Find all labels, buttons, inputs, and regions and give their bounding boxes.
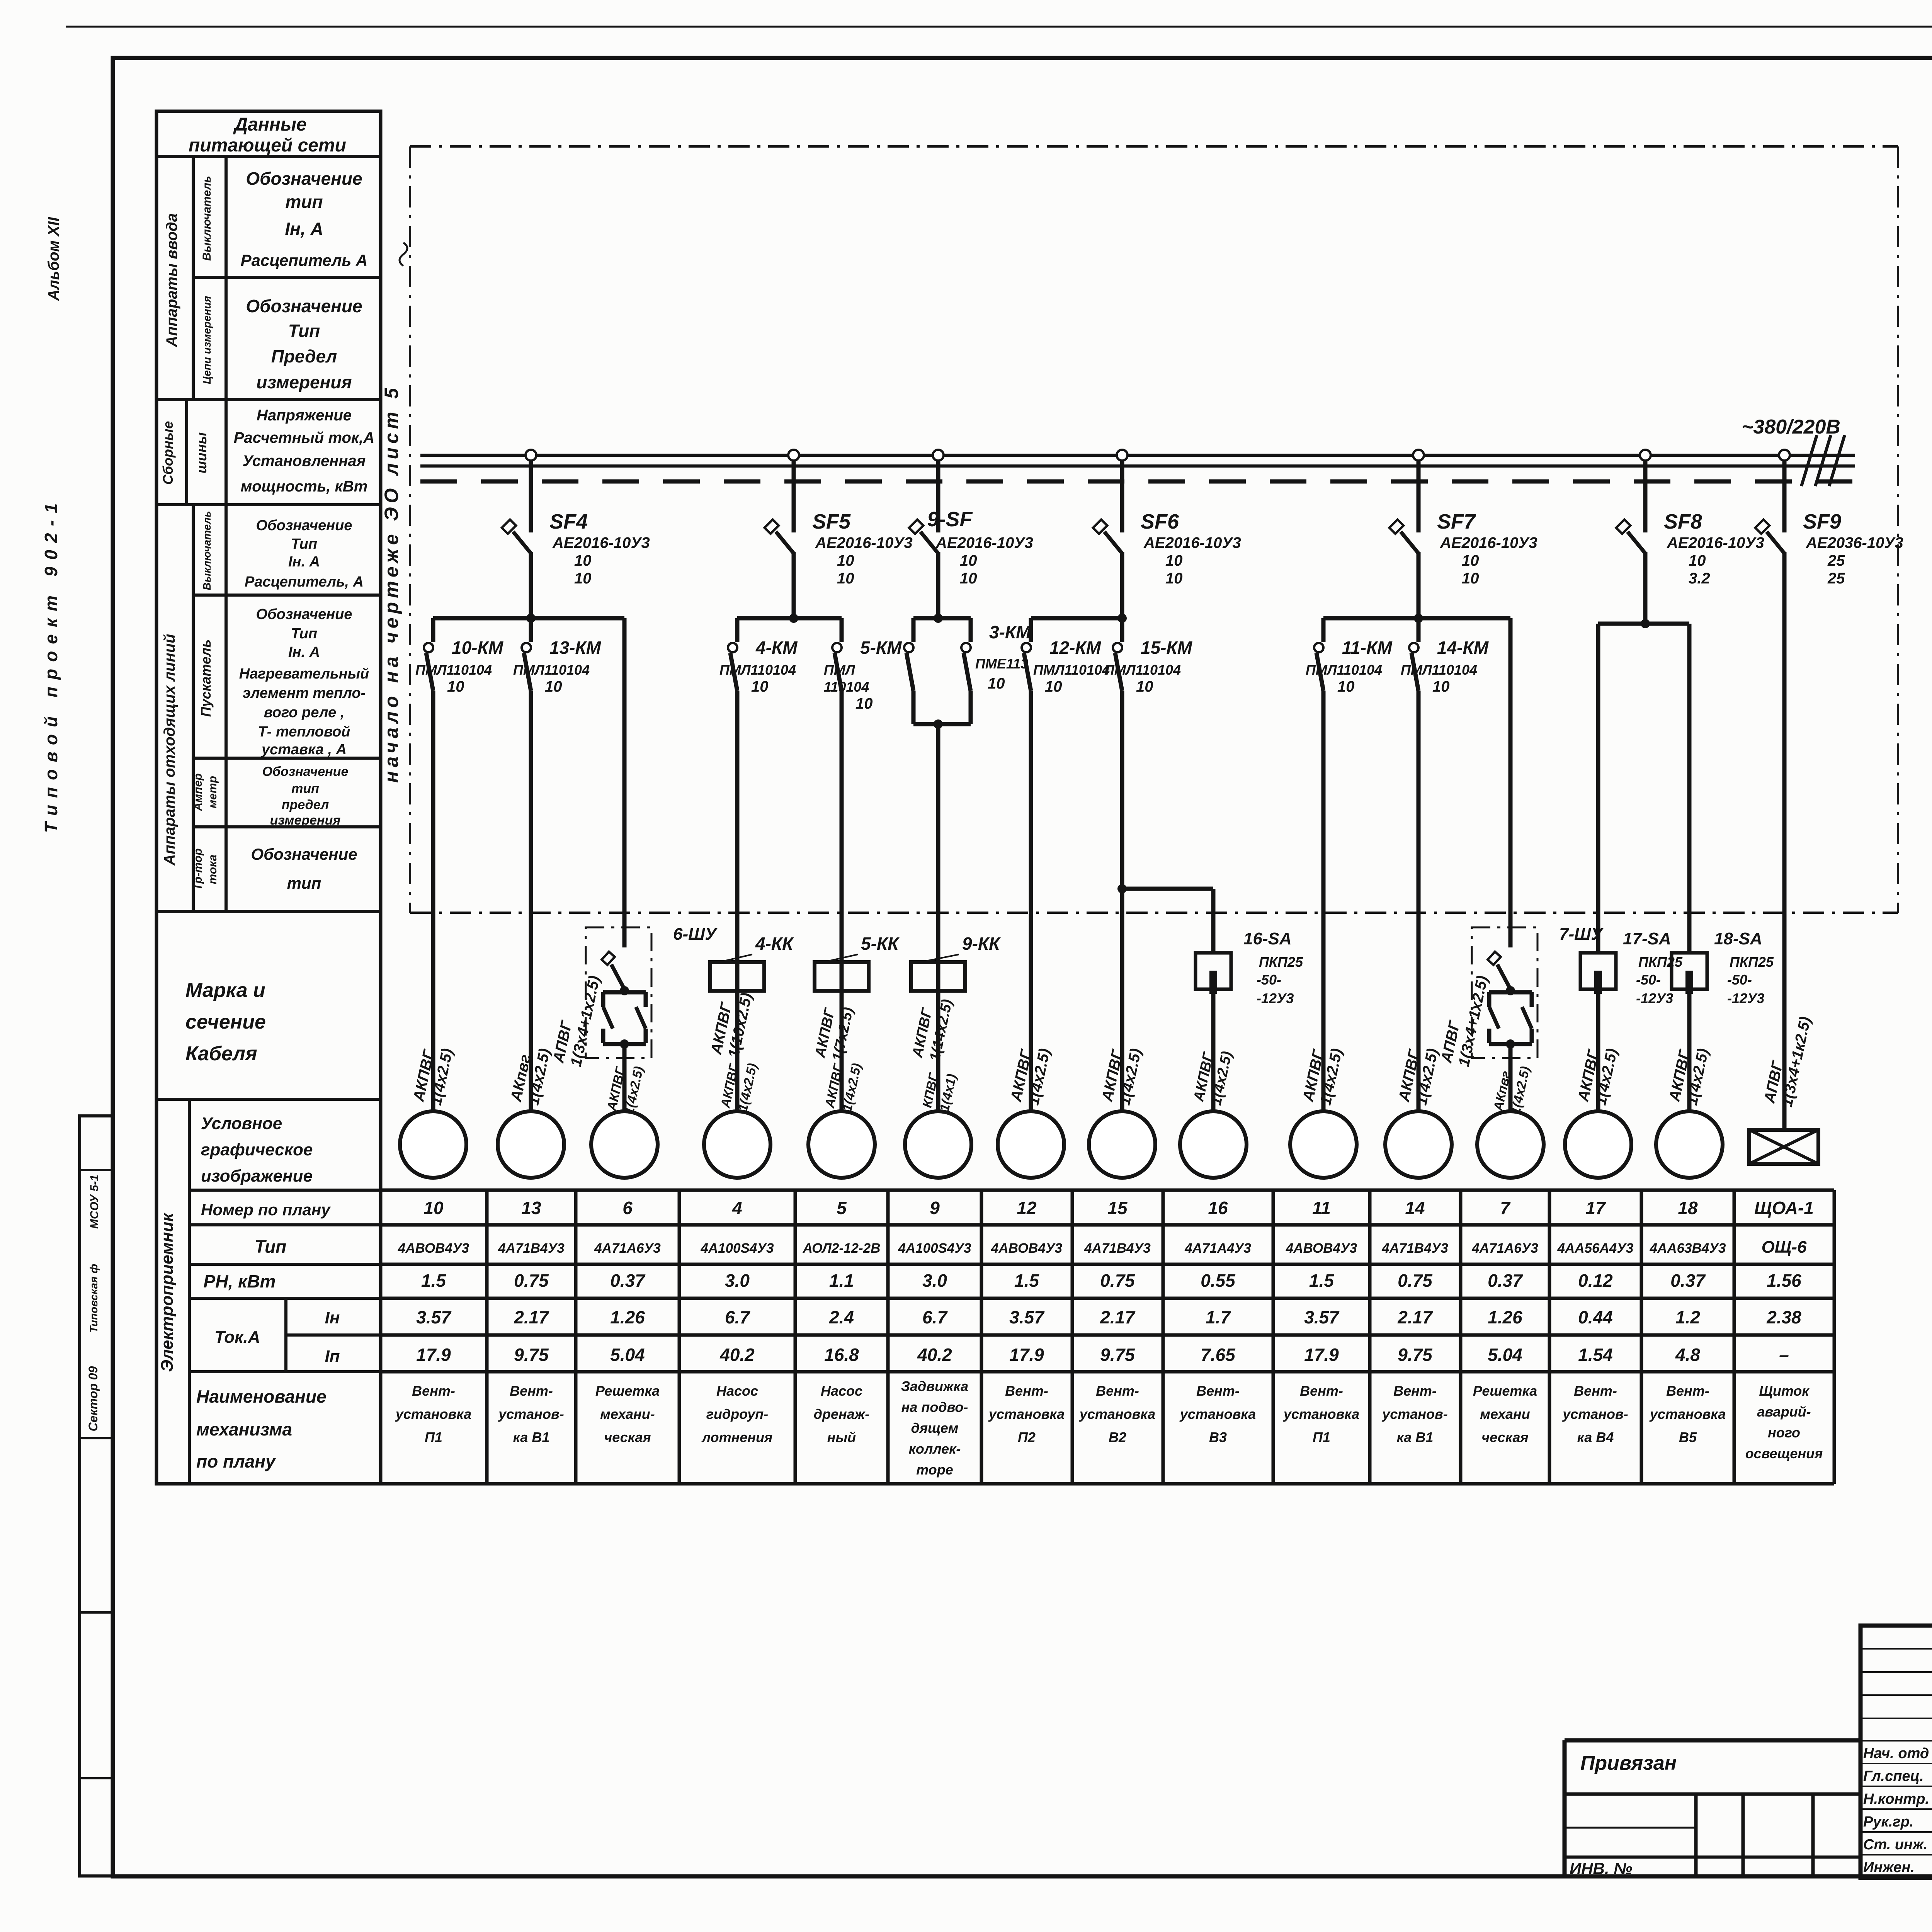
wire branch 9 — [936, 724, 940, 1111]
svg-text:Тип: Тип — [255, 1236, 287, 1257]
cable label АКПВГ 1(4х2.5) — [1190, 1046, 1235, 1107]
svg-text:2.17: 2.17 — [514, 1307, 549, 1327]
svg-text:метр: метр — [206, 776, 219, 808]
motor 13 — [498, 1111, 564, 1178]
cable label АКПВГ 1(4х2.5) — [1007, 1043, 1053, 1107]
svg-text:АОЛ2-12-2В: АОЛ2-12-2В — [803, 1241, 881, 1256]
title block signature table — [1861, 1626, 1932, 1878]
svg-text:10: 10 — [423, 1198, 444, 1218]
wire SF8 distribution bar — [1598, 552, 1689, 628]
svg-text:Вент-: Вент- — [1574, 1383, 1617, 1399]
svg-text:В3: В3 — [1209, 1429, 1227, 1445]
svg-text:тип: тип — [291, 781, 319, 796]
wire SF6 distribution bar — [1031, 614, 1127, 623]
svg-text:установка: установка — [1649, 1406, 1726, 1422]
svg-text:Расчетный ток,А: Расчетный ток,А — [234, 429, 374, 446]
svg-text:4.8: 4.8 — [1675, 1345, 1700, 1365]
svg-text:10: 10 — [960, 552, 977, 569]
cable label АКПВГ 1(4х2.5) — [1666, 1043, 1712, 1107]
svg-text:2.17: 2.17 — [1397, 1307, 1433, 1327]
svg-text:ОЩ-6: ОЩ-6 — [1762, 1238, 1807, 1257]
svg-text:4-КК: 4-КК — [755, 934, 794, 954]
svg-text:установка: установка — [395, 1406, 471, 1422]
svg-text:16.8: 16.8 — [824, 1345, 859, 1365]
contactor 10-КМ — [415, 618, 504, 695]
svg-text:Вент-: Вент- — [1393, 1383, 1437, 1399]
manual control box 6-ШУ — [586, 925, 718, 1111]
svg-text:10: 10 — [751, 678, 769, 695]
svg-text:13: 13 — [521, 1198, 541, 1218]
motor 6 — [591, 1111, 658, 1178]
svg-text:тип: тип — [287, 874, 321, 892]
svg-text:гидроуп-: гидроуп- — [706, 1406, 769, 1422]
svg-text:4АВОВ4У3: 4АВОВ4У3 — [1286, 1241, 1357, 1256]
svg-text:Марка и: Марка и — [185, 979, 265, 1002]
svg-text:6.7: 6.7 — [922, 1307, 948, 1327]
circuit breaker SF9 — [1755, 450, 1903, 618]
svg-text:SF5: SF5 — [812, 510, 851, 533]
svg-text:Iн: Iн — [325, 1308, 340, 1327]
svg-text:питающей сети: питающей сети — [189, 135, 346, 156]
svg-text:SF4: SF4 — [549, 510, 588, 533]
cable label АПВГ 1(3х4+1к2.5) — [1761, 1012, 1814, 1109]
circuit breaker SF6 — [1093, 450, 1241, 618]
svg-text:13-КМ: 13-КМ — [549, 638, 602, 658]
svg-text:SF8: SF8 — [1664, 510, 1702, 533]
svg-text:Решетка: Решетка — [1473, 1383, 1537, 1399]
svg-text:10-КМ: 10-КМ — [452, 638, 504, 658]
cable label АКПВГ 1(4х2.5) — [604, 1061, 646, 1116]
wire branch 6 to manual switch — [622, 618, 627, 947]
svg-text:4-КМ: 4-КМ — [755, 638, 798, 658]
emergency lighting panel ЩОА-1 — [1749, 1130, 1818, 1164]
svg-text:Условное: Условное — [201, 1114, 282, 1133]
left table outer — [156, 111, 381, 1484]
svg-text:ПМЛ: ПМЛ — [824, 662, 855, 678]
svg-text:АЕ2016-10У3: АЕ2016-10У3 — [935, 534, 1033, 551]
wire tap to switch 16-SA — [1117, 884, 1213, 953]
svg-text:10: 10 — [1689, 552, 1706, 569]
svg-text:0.44: 0.44 — [1578, 1307, 1613, 1327]
svg-text:Наименование: Наименование — [196, 1386, 327, 1406]
motor 18 — [1656, 1111, 1723, 1178]
svg-text:10: 10 — [447, 678, 464, 695]
svg-text:7-ШУ: 7-ШУ — [1559, 925, 1604, 944]
svg-text:10: 10 — [1337, 678, 1355, 695]
svg-text:уставка , А: уставка , А — [261, 742, 347, 758]
svg-text:5: 5 — [837, 1198, 847, 1218]
svg-text:Выключатель: Выключатель — [201, 176, 213, 261]
svg-text:измерения: измерения — [270, 813, 341, 828]
svg-text:ПКП25: ПКП25 — [1638, 954, 1683, 970]
svg-text:4А100S4У3: 4А100S4У3 — [700, 1241, 774, 1256]
svg-text:АЕ2036-10У3: АЕ2036-10У3 — [1806, 534, 1903, 551]
cable label АКпвг 1(4х2.5) — [507, 1043, 553, 1107]
svg-text:1.26: 1.26 — [1488, 1307, 1522, 1327]
margin note project — [41, 497, 61, 833]
neutral bus dashed — [420, 480, 1855, 484]
svg-text:18: 18 — [1678, 1198, 1698, 1218]
svg-text:18-SA: 18-SA — [1714, 929, 1762, 948]
svg-text:4А100S4У3: 4А100S4У3 — [898, 1241, 971, 1256]
svg-text:Альбом XII: Альбом XII — [45, 217, 62, 301]
svg-text:Обозначение: Обозначение — [251, 845, 357, 863]
svg-text:тока: тока — [206, 855, 219, 884]
cable label КПВГ 1(4х1) — [920, 1069, 959, 1113]
svg-text:Н.контр.: Н.контр. — [1863, 1791, 1929, 1807]
thermal relay 4-КК — [710, 934, 794, 991]
svg-text:Обозначение: Обозначение — [246, 296, 362, 316]
wire branch emergency lighting panel — [1782, 552, 1787, 1130]
svg-text:Насос: Насос — [716, 1383, 758, 1399]
svg-text:измерения: измерения — [256, 372, 352, 392]
svg-text:9.75: 9.75 — [1398, 1345, 1433, 1365]
svg-text:2.17: 2.17 — [1100, 1307, 1136, 1327]
svg-text:Ампер: Ампер — [192, 773, 204, 811]
motor 4 — [704, 1111, 770, 1178]
svg-text:ка В4: ка В4 — [1577, 1429, 1614, 1445]
svg-text:4: 4 — [732, 1198, 742, 1218]
svg-text:дренаж-: дренаж- — [814, 1406, 870, 1422]
svg-text:коллек-: коллек- — [909, 1441, 961, 1457]
left table grid — [156, 156, 381, 1484]
svg-text:4А71А6У3: 4А71А6У3 — [1471, 1241, 1538, 1256]
svg-text:ИНВ. №: ИНВ. № — [1570, 1859, 1632, 1878]
svg-text:9.75: 9.75 — [1100, 1345, 1135, 1365]
svg-text:0.55: 0.55 — [1201, 1270, 1236, 1291]
svg-text:Вент-: Вент- — [1096, 1383, 1139, 1399]
svg-text:АЕ2016-10У3: АЕ2016-10У3 — [815, 534, 913, 551]
svg-text:Iп: Iп — [325, 1347, 340, 1366]
manual control box 7-ШУ — [1472, 925, 1604, 1111]
svg-text:3.57: 3.57 — [416, 1307, 452, 1327]
svg-text:9-SF: 9-SF — [927, 508, 973, 531]
svg-text:1.54: 1.54 — [1578, 1345, 1613, 1365]
svg-text:17: 17 — [1585, 1198, 1606, 1218]
svg-text:Iн. А: Iн. А — [288, 554, 320, 570]
svg-text:1.5: 1.5 — [421, 1270, 446, 1291]
svg-text:10: 10 — [1165, 570, 1183, 587]
thermal relay 9-КК — [911, 934, 1001, 991]
svg-text:4АА63В4У3: 4АА63В4У3 — [1650, 1241, 1726, 1256]
svg-text:10: 10 — [837, 570, 854, 587]
attachment box — [1565, 1740, 1861, 1878]
svg-text:ПМЛ110104: ПМЛ110104 — [1401, 662, 1477, 678]
signature rows — [1863, 1745, 1932, 1876]
svg-text:ПМЛ110104: ПМЛ110104 — [1104, 662, 1181, 678]
svg-text:ный: ный — [827, 1429, 856, 1445]
svg-text:17.9: 17.9 — [1009, 1345, 1044, 1365]
svg-text:Ст. инж.: Ст. инж. — [1863, 1837, 1928, 1853]
svg-text:1.7: 1.7 — [1206, 1307, 1231, 1327]
svg-text:ка В1: ка В1 — [1397, 1429, 1434, 1445]
svg-text:-12У3: -12У3 — [1257, 990, 1294, 1006]
symbol row label — [201, 1114, 313, 1185]
svg-text:Рук.гр.: Рук.гр. — [1863, 1814, 1913, 1830]
svg-text:10: 10 — [545, 678, 562, 695]
svg-text:Обозначение: Обозначение — [246, 168, 362, 189]
contactor 14-КМ — [1401, 618, 1489, 695]
svg-text:-12У3: -12У3 — [1727, 990, 1764, 1006]
svg-text:SF7: SF7 — [1437, 510, 1476, 533]
svg-text:4АА56А4У3: 4АА56А4У3 — [1557, 1241, 1634, 1256]
svg-text:Расцепитель А: Расцепитель А — [241, 251, 368, 269]
svg-text:Нач. отд: Нач. отд — [1863, 1745, 1929, 1762]
svg-text:11: 11 — [1312, 1198, 1331, 1218]
switch 16-SA ПКП25 — [1196, 929, 1303, 1006]
switch 18-SA ПКП25 — [1672, 929, 1774, 1006]
svg-text:Сектор 09: Сектор 09 — [86, 1366, 100, 1431]
wire branch 17 — [1596, 624, 1600, 953]
svg-text:2.38: 2.38 — [1766, 1307, 1801, 1327]
svg-text:0.75: 0.75 — [1398, 1270, 1433, 1291]
svg-text:Пускатель: Пускатель — [198, 639, 214, 717]
svg-text:механи: механи — [1480, 1406, 1530, 1422]
svg-text:Цепи измерения: Цепи измерения — [201, 296, 213, 384]
svg-text:Вент-: Вент- — [1196, 1383, 1240, 1399]
svg-text:Номер по плану: Номер по плану — [201, 1201, 331, 1219]
wire branch 14 — [1417, 691, 1421, 1111]
svg-text:Типовская ф: Типовская ф — [88, 1264, 100, 1333]
svg-text:АЕ2016-10У3: АЕ2016-10У3 — [552, 534, 650, 551]
svg-text:~380/220В: ~380/220В — [1742, 416, 1840, 438]
wire 17 below switch — [1596, 989, 1600, 1111]
motor 11 — [1290, 1111, 1357, 1178]
svg-text:6: 6 — [622, 1198, 633, 1218]
svg-text:лотнения: лотнения — [701, 1429, 773, 1445]
wire branch 4 — [735, 691, 740, 1111]
svg-text:установка: установка — [1079, 1406, 1155, 1422]
svg-text:по плану: по плану — [196, 1451, 276, 1471]
svg-text:механизма: механизма — [196, 1419, 292, 1439]
svg-text:10: 10 — [1462, 552, 1479, 569]
contactor 13-КМ — [513, 618, 602, 695]
margin note album — [45, 217, 62, 301]
svg-text:ЩОА-1: ЩОА-1 — [1754, 1198, 1814, 1218]
svg-text:2.4: 2.4 — [829, 1307, 854, 1327]
svg-text:9: 9 — [930, 1198, 940, 1218]
svg-text:Вент-: Вент- — [510, 1383, 553, 1399]
wire branch 7 to manual switch — [1509, 618, 1513, 947]
svg-text:Выключатель: Выключатель — [201, 511, 213, 590]
svg-text:15-КМ: 15-КМ — [1141, 638, 1193, 658]
svg-text:ПМЕ113: ПМЕ113 — [975, 656, 1028, 672]
svg-text:Привязан: Привязан — [1580, 1752, 1677, 1774]
svg-text:17.9: 17.9 — [416, 1345, 451, 1365]
wire SF7 distribution bar — [1323, 614, 1510, 623]
svg-text:3.2: 3.2 — [1689, 570, 1710, 587]
svg-text:АЕ2016-10У3: АЕ2016-10У3 — [1143, 534, 1241, 551]
wire 16 below switch — [1211, 989, 1216, 1111]
svg-text:ного: ного — [1768, 1425, 1800, 1440]
motor 17 — [1565, 1111, 1631, 1178]
svg-text:ПКП25: ПКП25 — [1730, 954, 1774, 970]
wire branch 12 — [1029, 691, 1033, 1111]
svg-text:Тип: Тип — [288, 321, 320, 341]
circuit breaker SF8 — [1616, 450, 1764, 618]
svg-text:1.1: 1.1 — [829, 1270, 854, 1291]
svg-text:12: 12 — [1017, 1198, 1037, 1218]
contactor 4-КМ — [719, 618, 798, 695]
svg-text:4А71А6У3: 4А71А6У3 — [594, 1241, 661, 1256]
left table header — [156, 114, 381, 156]
cable label АКПВГ 1(4х2.5) — [822, 1058, 864, 1113]
svg-text:Ток.А: Ток.А — [214, 1328, 260, 1347]
cable label АКПВГ 1(4х2.5) — [410, 1043, 456, 1107]
svg-text:ка В1: ка В1 — [513, 1429, 550, 1445]
svg-text:15: 15 — [1107, 1198, 1128, 1218]
svg-text:Решетка: Решетка — [595, 1383, 660, 1399]
cable label АКПВГ 1(7х2.5) — [812, 1002, 857, 1063]
svg-text:освещения: освещения — [1745, 1446, 1823, 1461]
wire branch 11 — [1321, 691, 1326, 1111]
cable row label — [185, 979, 266, 1065]
circuit breaker SF4 — [502, 450, 650, 618]
svg-text:Насос: Насос — [821, 1383, 862, 1399]
svg-text:РН, кВт: РН, кВт — [204, 1271, 276, 1291]
cable label АПВГ 1(3х4+1х2.5) — [550, 971, 603, 1069]
svg-text:10: 10 — [988, 675, 1005, 692]
bus voltage label — [1742, 416, 1845, 486]
margin stamp table — [80, 1116, 113, 1876]
svg-text:SF9: SF9 — [1803, 510, 1841, 533]
svg-text:Инжен.: Инжен. — [1863, 1859, 1915, 1876]
svg-text:10: 10 — [574, 570, 592, 587]
svg-text:40.2: 40.2 — [719, 1345, 755, 1365]
wires below thermal relays — [737, 947, 938, 1111]
svg-text:0.37: 0.37 — [610, 1270, 646, 1291]
svg-text:ПМЛ110104: ПМЛ110104 — [513, 662, 590, 678]
svg-text:Аппараты отходящих линий: Аппараты отходящих линий — [161, 634, 178, 866]
svg-text:3.0: 3.0 — [922, 1270, 947, 1291]
svg-text:25: 25 — [1827, 570, 1845, 587]
svg-text:мощность, кВт: мощность, кВт — [241, 478, 368, 495]
svg-text:14: 14 — [1405, 1198, 1425, 1218]
svg-text:Обозначение: Обозначение — [262, 764, 349, 779]
svg-text:шины: шины — [194, 432, 209, 474]
svg-text:1.26: 1.26 — [610, 1307, 645, 1327]
svg-text:П1: П1 — [425, 1429, 442, 1445]
svg-text:Тип: Тип — [291, 536, 317, 552]
svg-text:17.9: 17.9 — [1304, 1345, 1339, 1365]
svg-text:Напряжение: Напряжение — [257, 407, 352, 424]
svg-text:Электроприемник: Электроприемник — [158, 1212, 177, 1372]
svg-text:ческая: ческая — [1481, 1429, 1528, 1445]
wire SF4 distribution bar — [433, 614, 624, 623]
left table col1 labels — [158, 213, 209, 1372]
svg-text:на подво-: на подво- — [901, 1399, 968, 1415]
cable label АКПВГ 1(4х2.5) — [1395, 1043, 1441, 1107]
svg-text:установ-: установ- — [498, 1406, 564, 1422]
svg-text:Обозначение: Обозначение — [256, 517, 352, 534]
svg-text:В2: В2 — [1109, 1429, 1126, 1445]
svg-text:3.57: 3.57 — [1304, 1307, 1340, 1327]
svg-text:25: 25 — [1827, 552, 1845, 569]
svg-text:установка: установка — [1283, 1406, 1359, 1422]
motor 16 — [1180, 1111, 1247, 1178]
svg-text:10: 10 — [1045, 678, 1062, 695]
svg-text:Сборные: Сборные — [160, 421, 176, 485]
svg-text:16-SA: 16-SA — [1243, 929, 1292, 948]
svg-text:10: 10 — [855, 695, 873, 712]
svg-text:1.2: 1.2 — [1675, 1307, 1700, 1327]
motor 12 — [998, 1111, 1064, 1178]
svg-text:10: 10 — [960, 570, 977, 587]
svg-text:Предел: Предел — [271, 346, 337, 366]
svg-text:4А71В4У3: 4А71В4У3 — [498, 1241, 565, 1256]
svg-text:6-ШУ: 6-ШУ — [673, 925, 718, 944]
svg-text:5-КМ: 5-КМ — [860, 638, 902, 658]
svg-text:изображение: изображение — [201, 1167, 313, 1185]
switch 17-SA ПКП25 — [1580, 929, 1683, 1006]
contactor 11-КМ — [1306, 618, 1393, 695]
svg-text:10: 10 — [1165, 552, 1183, 569]
cable label АКПВГ 1(4х2.5) — [718, 1058, 760, 1113]
data table values — [395, 1198, 1823, 1478]
svg-text:предел: предел — [282, 798, 329, 812]
cable label АКПВГ 1(4х2.5) — [1575, 1043, 1621, 1107]
svg-text:Обозначение: Обозначение — [256, 606, 352, 622]
left table row descriptions — [234, 168, 374, 892]
svg-text:элемент тепло-: элемент тепло- — [243, 685, 366, 701]
circuit breaker SF5 — [765, 450, 913, 618]
circuit breaker SF7 — [1389, 450, 1537, 618]
svg-text:10: 10 — [1136, 678, 1153, 695]
cable label АКпвг 1(4х2.5) — [1491, 1061, 1533, 1116]
svg-text:12-КМ: 12-КМ — [1049, 638, 1102, 658]
cable label АКПВГ 1(4х2.5) — [1299, 1043, 1345, 1107]
svg-text:МСОУ 5-1: МСОУ 5-1 — [88, 1175, 101, 1229]
note continued on sheet — [381, 384, 402, 783]
motor 14 — [1385, 1111, 1452, 1178]
contactor 12-КМ — [1022, 618, 1110, 695]
svg-text:10: 10 — [1432, 678, 1450, 695]
left table col2 labels — [192, 176, 219, 890]
svg-text:Щиток: Щиток — [1759, 1383, 1810, 1399]
svg-text:0.75: 0.75 — [1100, 1270, 1135, 1291]
svg-text:5-КК: 5-КК — [861, 934, 900, 954]
svg-text:П1: П1 — [1313, 1429, 1330, 1445]
motor 7 — [1477, 1111, 1544, 1178]
svg-text:Расцепитель, А: Расцепитель, А — [245, 574, 364, 590]
data row labels — [196, 1201, 340, 1471]
svg-text:Данные: Данные — [233, 114, 306, 135]
svg-text:ПМЛ110104: ПМЛ110104 — [1306, 662, 1382, 678]
svg-text:1.5: 1.5 — [1309, 1270, 1334, 1291]
cable label АКПВГ 1(10х2.5) — [707, 988, 755, 1060]
wire SF5 distribution bar — [737, 614, 842, 623]
motor 10 — [400, 1111, 466, 1178]
svg-text:6.7: 6.7 — [725, 1307, 750, 1327]
svg-text:Задвижка: Задвижка — [901, 1378, 968, 1394]
svg-text:10: 10 — [1462, 570, 1479, 587]
svg-text:-50-: -50- — [1727, 972, 1752, 988]
wire branch 15 — [1120, 691, 1124, 1111]
svg-text:В5: В5 — [1679, 1429, 1697, 1445]
svg-text:ПМЛ110104: ПМЛ110104 — [415, 662, 492, 678]
svg-text:Iн. А: Iн. А — [288, 644, 320, 660]
svg-text:ческая: ческая — [604, 1429, 651, 1445]
svg-text:–: – — [1779, 1345, 1789, 1365]
svg-text:4АВОВ4У3: 4АВОВ4У3 — [398, 1241, 469, 1256]
svg-text:аварий-: аварий- — [1757, 1404, 1811, 1420]
svg-text:-50-: -50- — [1257, 972, 1281, 988]
svg-text:7.65: 7.65 — [1201, 1345, 1236, 1365]
svg-text:17-SA: 17-SA — [1623, 929, 1671, 948]
svg-text:сечение: сечение — [185, 1011, 266, 1033]
thermal relay 5-КК — [815, 934, 900, 991]
svg-text:Нагревательный: Нагревательный — [239, 666, 369, 682]
